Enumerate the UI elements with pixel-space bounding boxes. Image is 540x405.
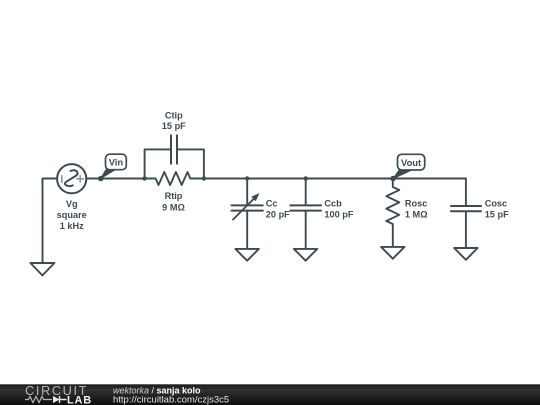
node Vin dot xyxy=(98,176,104,182)
Vg minus mark xyxy=(61,176,63,183)
node Vout flag box xyxy=(398,154,425,170)
wire Vout node to Cosc branch xyxy=(393,179,466,206)
wire from Vg plus through Vin node to Rtip left node xyxy=(86,178,144,180)
capacitor Ccb bottom lead xyxy=(305,212,307,249)
voltage source Vg (circle) xyxy=(57,164,86,193)
ground (below Ccb) xyxy=(294,249,317,261)
node Vout flag pointer xyxy=(393,170,411,178)
junction node dot (Rtip/Ctip left) xyxy=(142,176,146,180)
svg-text:Vout: Vout xyxy=(401,157,421,168)
svg-text:Cosc: Cosc xyxy=(485,198,507,208)
node Vout dot xyxy=(390,176,396,182)
ground (below Cc) xyxy=(235,249,258,261)
svg-text:1 MΩ: 1 MΩ xyxy=(405,210,428,220)
svg-text:LAB: LAB xyxy=(67,394,92,405)
capacitor Cosc plates xyxy=(451,206,481,211)
capacitor Cc top lead xyxy=(246,179,248,205)
ground (left, Vg return) xyxy=(30,263,54,275)
Vg square-wave symbol xyxy=(65,170,78,186)
svg-text:Rosc: Rosc xyxy=(405,198,427,208)
capacitor Cc plates xyxy=(232,205,263,210)
junction node dot (Cc) xyxy=(245,176,249,180)
svg-text:Ctip: Ctip xyxy=(165,110,183,120)
ground (below Cosc) xyxy=(454,248,477,260)
svg-text:Ccb: Ccb xyxy=(324,198,342,208)
capacitor Ccb plates xyxy=(290,205,321,210)
svg-text:100 pF: 100 pF xyxy=(324,210,353,220)
capacitor Ccb top lead xyxy=(305,179,307,205)
wire Ccb node to Vout node xyxy=(306,178,394,180)
CircuitLab logo resistor squiggle xyxy=(25,396,52,402)
capacitor Ctip branch wire right xyxy=(177,149,204,178)
capacitor Cc arrow head xyxy=(251,193,259,201)
svg-text:Vin: Vin xyxy=(109,157,124,168)
capacitor Cc variable arrow xyxy=(233,198,255,220)
capacitor Cosc bottom lead xyxy=(465,212,467,247)
svg-text:Rtip: Rtip xyxy=(165,191,183,201)
wire Cc node to Ccb node xyxy=(247,178,306,180)
capacitor Cc bottom lead xyxy=(246,212,248,249)
resistor Rosc top lead and zigzag xyxy=(386,179,399,247)
svg-text:9 MΩ: 9 MΩ xyxy=(162,202,185,212)
svg-text:Vg: Vg xyxy=(66,199,78,209)
ground (below Rosc) xyxy=(381,247,404,259)
Vg plus mark xyxy=(77,176,83,182)
svg-text:http://circuitlab.com/czjs3c5: http://circuitlab.com/czjs3c5 xyxy=(113,395,229,405)
svg-text:15 pF: 15 pF xyxy=(485,210,509,220)
wire from Vg minus terminal to left ground xyxy=(43,179,58,263)
node Vin flag box xyxy=(106,154,127,170)
svg-text:Cc: Cc xyxy=(266,198,278,208)
resistor Rtip zigzag xyxy=(145,172,204,185)
node Vin flag pointer xyxy=(101,170,115,179)
svg-text:1 kHz: 1 kHz xyxy=(60,221,84,231)
CircuitLab logo diode xyxy=(53,396,60,403)
junction node dot (Rtip/Ctip right) xyxy=(202,176,206,180)
svg-text:square: square xyxy=(57,210,87,220)
junction node dot (Ccb) xyxy=(304,176,308,180)
wire Rtip right node to Cc node xyxy=(204,178,247,180)
capacitor Ctip branch wire left xyxy=(145,149,171,178)
svg-text:15 pF: 15 pF xyxy=(162,121,186,131)
svg-text:20 pF: 20 pF xyxy=(266,210,290,220)
capacitor Ctip plates xyxy=(171,135,177,164)
